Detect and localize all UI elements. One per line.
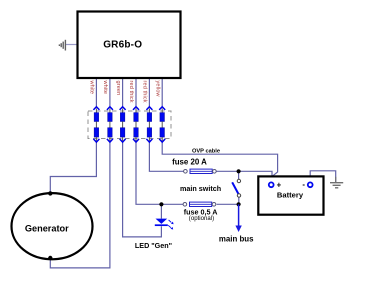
svg-text:GR6b-O: GR6b-O	[103, 39, 142, 50]
svg-text:-: -	[302, 180, 305, 189]
svg-text:red thick: red thick	[128, 81, 134, 103]
svg-text:OVP cable: OVP cable	[192, 148, 220, 154]
svg-text:main switch: main switch	[180, 184, 221, 193]
svg-text:yellow: yellow	[154, 81, 160, 97]
svg-text:Battery: Battery	[277, 190, 304, 199]
svg-text:green: green	[115, 81, 121, 96]
svg-text:+: +	[277, 181, 282, 190]
svg-text:fuse 20 A: fuse 20 A	[172, 158, 207, 167]
svg-text:white: white	[89, 80, 95, 95]
svg-text:LED "Gen": LED "Gen"	[135, 241, 172, 250]
svg-text:Generator: Generator	[25, 223, 69, 233]
svg-text:main bus: main bus	[219, 234, 254, 243]
svg-text:red thick: red thick	[142, 81, 148, 103]
svg-text:white: white	[102, 80, 108, 95]
svg-text:(optional): (optional)	[189, 215, 214, 222]
